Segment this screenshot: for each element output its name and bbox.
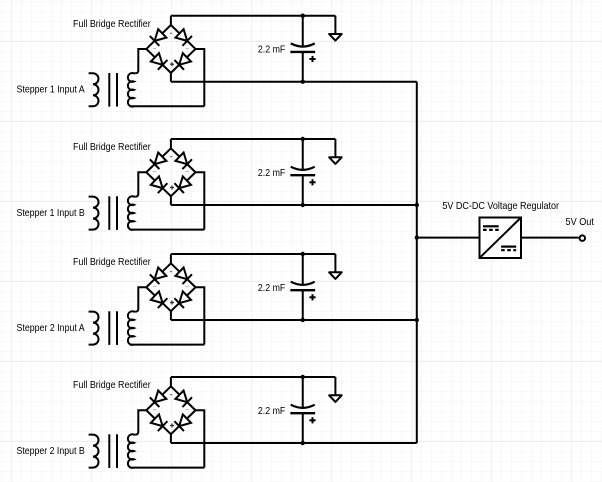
- svg-text:Full Bridge Rectifier: Full Bridge Rectifier: [73, 380, 151, 391]
- svg-text:Stepper 1 Input A: Stepper 1 Input A: [17, 85, 85, 96]
- svg-text:2.2 mF: 2.2 mF: [258, 168, 285, 179]
- svg-text:Full Bridge Rectifier: Full Bridge Rectifier: [73, 142, 151, 153]
- svg-text:5V Out: 5V Out: [566, 217, 595, 228]
- svg-text:2.2 mF: 2.2 mF: [258, 45, 285, 56]
- svg-text:~: ~: [153, 45, 157, 52]
- svg-text:2.2 mF: 2.2 mF: [258, 406, 285, 417]
- svg-text:~: ~: [185, 407, 189, 414]
- svg-text:~: ~: [185, 45, 189, 52]
- svg-text:Stepper 2 Input A: Stepper 2 Input A: [17, 323, 85, 334]
- svg-text:Stepper 1 Input B: Stepper 1 Input B: [17, 208, 85, 219]
- svg-text:~: ~: [185, 284, 189, 291]
- svg-text:2.2 mF: 2.2 mF: [258, 283, 285, 294]
- svg-text:5V DC-DC Voltage Regulator: 5V DC-DC Voltage Regulator: [442, 201, 559, 212]
- svg-text:~: ~: [153, 407, 157, 414]
- svg-text:Full Bridge Rectifier: Full Bridge Rectifier: [73, 19, 151, 30]
- svg-text:~: ~: [153, 284, 157, 291]
- svg-text:~: ~: [153, 169, 157, 176]
- svg-text:Stepper 2 Input B: Stepper 2 Input B: [17, 446, 85, 457]
- svg-text:Full Bridge Rectifier: Full Bridge Rectifier: [73, 257, 151, 268]
- svg-text:~: ~: [185, 169, 189, 176]
